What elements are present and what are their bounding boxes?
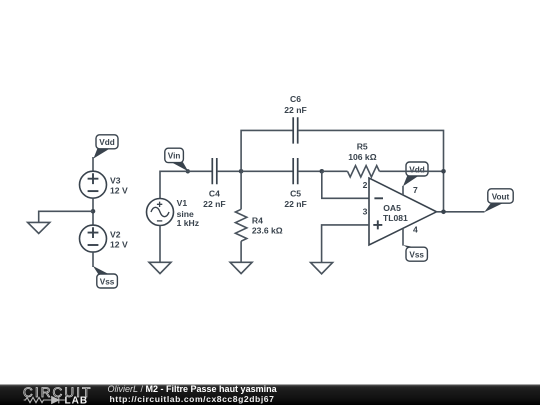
svg-text:Vss: Vss (409, 251, 424, 260)
svg-text:22 nF: 22 nF (284, 199, 306, 209)
ground (V1) (149, 262, 171, 273)
svg-text:V2: V2 (110, 229, 121, 239)
svg-text:LAB: LAB (65, 395, 89, 405)
svg-text:12 V: 12 V (110, 240, 128, 250)
wire non-inverting input to ground (322, 225, 369, 263)
wire junction to C5 (241, 170, 293, 172)
svg-text:Vin: Vin (168, 152, 181, 161)
wire junction to ground (39, 211, 93, 222)
node junction output (441, 210, 446, 215)
resistor R5 (348, 166, 380, 177)
svg-text:C4: C4 (209, 189, 220, 199)
wire top rail right, down to output (298, 130, 444, 211)
wire junction to R5 (322, 170, 348, 172)
svg-text:Vss: Vss (100, 277, 115, 286)
capacitor C6 (293, 117, 298, 143)
wire C4 to junction (217, 170, 241, 172)
node junction C4/R4 (239, 169, 244, 174)
net flag Vss (bottom left) (93, 266, 117, 288)
svg-text:4: 4 (413, 225, 418, 235)
wire op-amp pin 7 (402, 186, 404, 195)
svg-text:R5: R5 (357, 142, 368, 152)
voltage source V1 (sine) (147, 199, 174, 226)
svg-text:22 nF: 22 nF (284, 105, 306, 115)
svg-text:22 nF: 22 nF (203, 199, 225, 209)
wire C5 to junction 2 (298, 170, 322, 172)
svg-text:Vdd: Vdd (99, 138, 114, 147)
svg-text:2: 2 (363, 180, 368, 190)
ground (R4) (230, 262, 252, 273)
wire V1 to ground (159, 226, 161, 263)
svg-text:http://circuitlab.com/cx8cc8g2: http://circuitlab.com/cx8cc8g2dbj67 (110, 394, 275, 404)
svg-text:1 kHz: 1 kHz (177, 218, 199, 228)
voltage source V2 (80, 225, 107, 252)
wire R4 to ground (240, 241, 242, 262)
net flag Vdd (op-amp pin 7) (403, 162, 428, 186)
svg-text:TL081: TL081 (383, 213, 408, 223)
svg-text:R4: R4 (252, 215, 263, 225)
node junction C5 (320, 169, 325, 174)
voltage source V3 (80, 171, 107, 198)
CircuitLab logo: resistor-diode glyph (24, 397, 65, 404)
capacitor C5 (293, 158, 298, 184)
wire output (437, 211, 485, 213)
wire Vdd to V3 (92, 157, 94, 171)
wire op-amp pin 4 (402, 229, 404, 246)
svg-text:7: 7 (413, 185, 418, 195)
net flag Vdd (top left) (94, 135, 119, 159)
svg-text:V1: V1 (177, 198, 188, 208)
node junction left (91, 209, 96, 214)
ground (op-amp +) (311, 263, 333, 274)
wire junction to inverting input (322, 171, 369, 198)
op-amp OA5 (369, 178, 437, 245)
resistor R4 (235, 209, 246, 241)
node junction feedback top (441, 169, 446, 174)
svg-text:12 V: 12 V (110, 186, 128, 196)
svg-text:C5: C5 (290, 189, 301, 199)
svg-text:Vdd: Vdd (409, 165, 424, 174)
svg-text:OlivierL / M2 - Filtre Passe h: OlivierL / M2 - Filtre Passe haut yasmin… (108, 384, 278, 394)
svg-text:C6: C6 (290, 94, 301, 104)
svg-text:23.6 kΩ: 23.6 kΩ (252, 226, 283, 236)
net flag Vout (484, 189, 513, 212)
svg-text:3: 3 (363, 206, 368, 216)
svg-text:106 kΩ: 106 kΩ (348, 152, 377, 162)
svg-text:Vout: Vout (492, 192, 510, 201)
svg-text:V3: V3 (110, 175, 121, 185)
wire junction up to top rail (241, 130, 293, 171)
wire R5 to feedback node (crosses Vdd flag box) (379, 170, 443, 172)
wire junction to R4 (240, 171, 242, 209)
wire Vin corner to V1 and to C4 (160, 171, 212, 198)
ground (left) (28, 222, 50, 233)
wire V2 to Vss flag (92, 252, 94, 267)
net flag Vin (165, 148, 190, 173)
wire V3 to junction to V2 (92, 198, 94, 225)
capacitor C4 (212, 158, 217, 184)
net flag Vss (op-amp pin 4) (403, 245, 427, 261)
svg-text:OA5: OA5 (383, 203, 401, 213)
